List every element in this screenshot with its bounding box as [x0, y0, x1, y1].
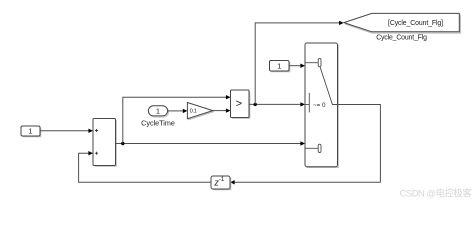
junction node at relational operator output — [254, 103, 257, 106]
unit delay block Z1 — [211, 176, 231, 190]
wire junction up to Goto tag — [255, 21, 344, 105]
wire CycleTime to Gain — [168, 109, 188, 113]
watermark CSDN — [400, 188, 473, 200]
svg-text:1: 1 — [156, 107, 160, 116]
label Cycle_Count_Flg — [376, 34, 427, 41]
svg-text:1: 1 — [28, 127, 32, 136]
svg-text:CycleTime: CycleTime — [141, 118, 175, 127]
wire Gain to relational operator input 2 — [213, 108, 231, 112]
label CycleTime — [141, 118, 175, 127]
switch selector diagonal to input 1 — [320, 67, 338, 105]
wire Sum output to Switch input 3 — [116, 141, 306, 145]
gain block G1 value 0.1 — [187, 103, 214, 120]
switch criteria label ~= 0 — [313, 102, 326, 109]
sum block Add — [93, 119, 116, 167]
svg-text:-1: -1 — [219, 177, 225, 183]
svg-text:Cycle_Count_Flg: Cycle_Count_Flg — [376, 34, 427, 41]
wire relational operator output to Switch input 2 — [249, 102, 305, 106]
svg-text:>: > — [236, 98, 242, 110]
switch internal port 1 line and pip — [305, 58, 321, 66]
svg-text:~= 0: ~= 0 — [313, 102, 326, 109]
constant block C2 value 1 — [270, 61, 290, 72]
wire branch up to relational operator input 1 — [123, 95, 231, 144]
constant block C1 value 1 — [21, 126, 41, 137]
svg-text:0.1: 0.1 — [190, 108, 197, 114]
junction node at sum output — [121, 142, 124, 145]
relational operator block U1 > — [231, 90, 250, 118]
wire C2 to Switch input 1 — [289, 64, 305, 68]
inport block CycleTime value 1 — [148, 106, 168, 117]
switch block SW1 — [305, 43, 338, 167]
switch internal port 3 line and pip — [305, 144, 321, 152]
svg-text:1: 1 — [277, 61, 281, 70]
wire Unit Delay output to Sum input 2 — [79, 151, 211, 182]
wire Switch output loop to Unit Delay input — [230, 105, 380, 185]
switch internal threshold tick — [305, 93, 309, 112]
svg-text:[Cycle_Count_Flg]: [Cycle_Count_Flg] — [388, 20, 443, 27]
wire C1 to Sum input 1 — [40, 129, 93, 133]
svg-text:CSDN @电控极客: CSDN @电控极客 — [400, 188, 473, 200]
goto tag block [Cycle_Count_Flg] — [344, 13, 461, 33]
